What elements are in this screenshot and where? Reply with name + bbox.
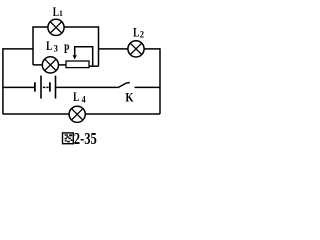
lamp L4 (69, 106, 85, 122)
svg-text:1: 1 (59, 9, 63, 18)
caption CJK glyph (63, 133, 74, 144)
wire slider loop (75, 47, 93, 66)
caption figure 2-35 (63, 130, 97, 148)
wire battery to switch (56, 86, 118, 88)
rheostat slider arrow (73, 55, 77, 59)
lamp L2 (128, 41, 144, 57)
wire left vertical (2, 48, 4, 114)
svg-text:3: 3 (54, 43, 59, 53)
wire switch right (135, 86, 161, 88)
lamp L3 (42, 57, 58, 73)
rheostat R1 body (66, 61, 89, 68)
wire right branch vertical (98, 26, 100, 66)
wire bottom row (3, 113, 160, 115)
lamp L1 (48, 19, 64, 35)
wire rheostat right connector (89, 65, 99, 67)
svg-text:K: K (125, 91, 134, 105)
svg-text:2-35: 2-35 (74, 130, 97, 148)
battery B1 (35, 76, 56, 99)
wire battery row left (3, 86, 34, 88)
label L2 (133, 26, 144, 40)
svg-text:L: L (73, 91, 80, 105)
svg-text:L: L (133, 26, 140, 40)
wire L1 row (33, 26, 99, 28)
wire right vertical (159, 48, 161, 114)
label L3 (46, 40, 58, 54)
svg-text:2: 2 (140, 29, 144, 39)
svg-text:P: P (64, 43, 70, 57)
label L4 (73, 91, 86, 105)
wire left branch vertical (32, 26, 34, 65)
switch K (118, 83, 130, 88)
label L1 (53, 6, 63, 20)
svg-text:4: 4 (82, 94, 87, 105)
wire mid left (3, 48, 33, 50)
wire battery dashes (43, 86, 49, 88)
wire L3 row (33, 64, 66, 66)
svg-text:L: L (46, 40, 53, 54)
wire L2 row (99, 48, 161, 50)
